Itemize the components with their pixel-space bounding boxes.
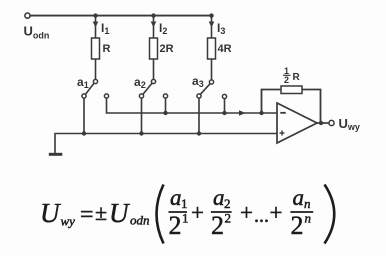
node: a2 right / summing bus <box>163 111 167 115</box>
switch a1: right contact <box>104 94 108 98</box>
node: a3 right / summing bus <box>222 111 226 115</box>
switch a1: pole contact <box>93 79 97 83</box>
wire: feedback right side down to output <box>302 90 321 124</box>
node: feedback tap on summing bus <box>259 111 263 115</box>
switch a1: left contact <box>82 94 86 98</box>
svg-text:I2: I2 <box>159 21 167 36</box>
svg-text:wy: wy <box>61 214 76 229</box>
svg-text:2: 2 <box>169 211 182 240</box>
svg-text:a: a <box>213 185 225 210</box>
switch a2: pole contact <box>151 79 155 83</box>
wire: branch 2 vertical <box>153 16 155 80</box>
formula: opening parenthesis <box>157 185 164 244</box>
resistor 4R (branch 3) <box>208 38 216 59</box>
svg-text:2: 2 <box>224 196 231 211</box>
formula: fraction a2/2^2 bar <box>211 211 232 213</box>
svg-text:a1: a1 <box>77 75 89 90</box>
svg-text:odn: odn <box>130 213 150 228</box>
svg-text:R: R <box>103 43 111 55</box>
svg-text:1: 1 <box>182 211 189 226</box>
node: feedback / output junction <box>319 121 323 125</box>
switch a2: lever <box>143 83 152 94</box>
node: junction rail/branch3 <box>209 13 213 17</box>
wire: top rail from Uodn terminal to branch 3 <box>30 15 211 17</box>
formula: closing parenthesis <box>325 185 335 244</box>
svg-text:2: 2 <box>225 211 232 226</box>
node: junction rail/branch2 <box>151 13 155 17</box>
terminal Uwy (open circle) <box>329 120 334 125</box>
svg-text:I3: I3 <box>217 21 225 36</box>
svg-text:2: 2 <box>211 211 224 240</box>
current arrow I1 <box>93 22 99 28</box>
op-amp plus input sign <box>280 132 285 134</box>
svg-text:n: n <box>305 211 312 226</box>
wire: op-amp output <box>317 122 329 124</box>
node: a3 left / ground bus <box>197 131 201 135</box>
current arrow I2 <box>151 22 157 28</box>
svg-text:I1: I1 <box>101 21 109 36</box>
switch a3: pole contact <box>209 80 213 84</box>
wire: a3 left contact down to ground bus <box>198 98 200 133</box>
svg-text:Uwy: Uwy <box>339 116 360 132</box>
svg-text:U: U <box>40 198 61 228</box>
svg-text:...: ... <box>254 205 269 227</box>
wire: a2 right contact down to summing bus <box>165 98 167 113</box>
wire: feedback loop <box>262 90 282 114</box>
current arrow I3 <box>209 22 215 28</box>
svg-text:2: 2 <box>291 211 304 240</box>
svg-text:a: a <box>170 185 182 210</box>
switch a3: lever <box>201 84 211 94</box>
svg-text:Uodn: Uodn <box>24 24 50 41</box>
svg-text:+: + <box>240 200 253 225</box>
formula: fraction a1/2^1 bar <box>169 211 188 213</box>
switch a3: left contact <box>197 94 201 98</box>
op-amp minus input sign <box>280 112 286 114</box>
wire: a2 left contact down to ground bus <box>141 98 143 133</box>
svg-text:2: 2 <box>284 75 289 85</box>
ground <box>49 153 63 156</box>
svg-text:a3: a3 <box>192 74 204 89</box>
node: a1 left / ground bus <box>82 131 86 135</box>
svg-text:+: + <box>270 200 283 225</box>
arrow on summing bus toward op-amp <box>239 110 246 115</box>
resistor R (branch 1) <box>92 38 100 59</box>
formula Uwy = ±Uodn( a1/2^1 + a2/2^2 + ... + an/2^n ) <box>40 185 334 244</box>
op-amp U1 triangle <box>277 103 317 143</box>
node: junction rail/branch1 <box>93 13 97 17</box>
node: a2 left / ground bus <box>139 131 143 135</box>
wire: a1 left contact down to ground bus <box>83 98 85 133</box>
svg-text:1: 1 <box>181 196 188 211</box>
wire: a1 right contact down to summing bus corner <box>107 98 278 113</box>
svg-text:R: R <box>293 72 301 83</box>
svg-text:a2: a2 <box>134 75 146 90</box>
terminal Uodn (open circle) <box>25 13 30 18</box>
wire: branch 3 vertical <box>211 16 213 80</box>
svg-text:+: + <box>191 200 204 225</box>
wire: branch 1 vertical (rail to switch pole) <box>95 16 97 80</box>
svg-text:2R: 2R <box>160 43 174 55</box>
svg-text:n: n <box>304 196 311 211</box>
wire: a3 right contact down to summing bus <box>224 99 226 113</box>
svg-text:U: U <box>109 198 130 228</box>
resistor 1/2R (feedback) <box>281 86 302 94</box>
switch a1: lever <box>86 83 95 94</box>
switch a2: right contact <box>163 94 167 98</box>
switch a3: right contact <box>222 94 226 98</box>
resistor 2R (branch 2) <box>150 38 158 59</box>
formula: fraction an/2^n bar <box>290 211 313 213</box>
svg-text:±: ± <box>95 200 107 225</box>
svg-text:4R: 4R <box>218 43 232 55</box>
wire: ground bus <box>55 134 277 154</box>
switch a2: left contact <box>139 94 143 98</box>
svg-text:a: a <box>293 185 305 210</box>
svg-text:=: = <box>80 202 94 228</box>
